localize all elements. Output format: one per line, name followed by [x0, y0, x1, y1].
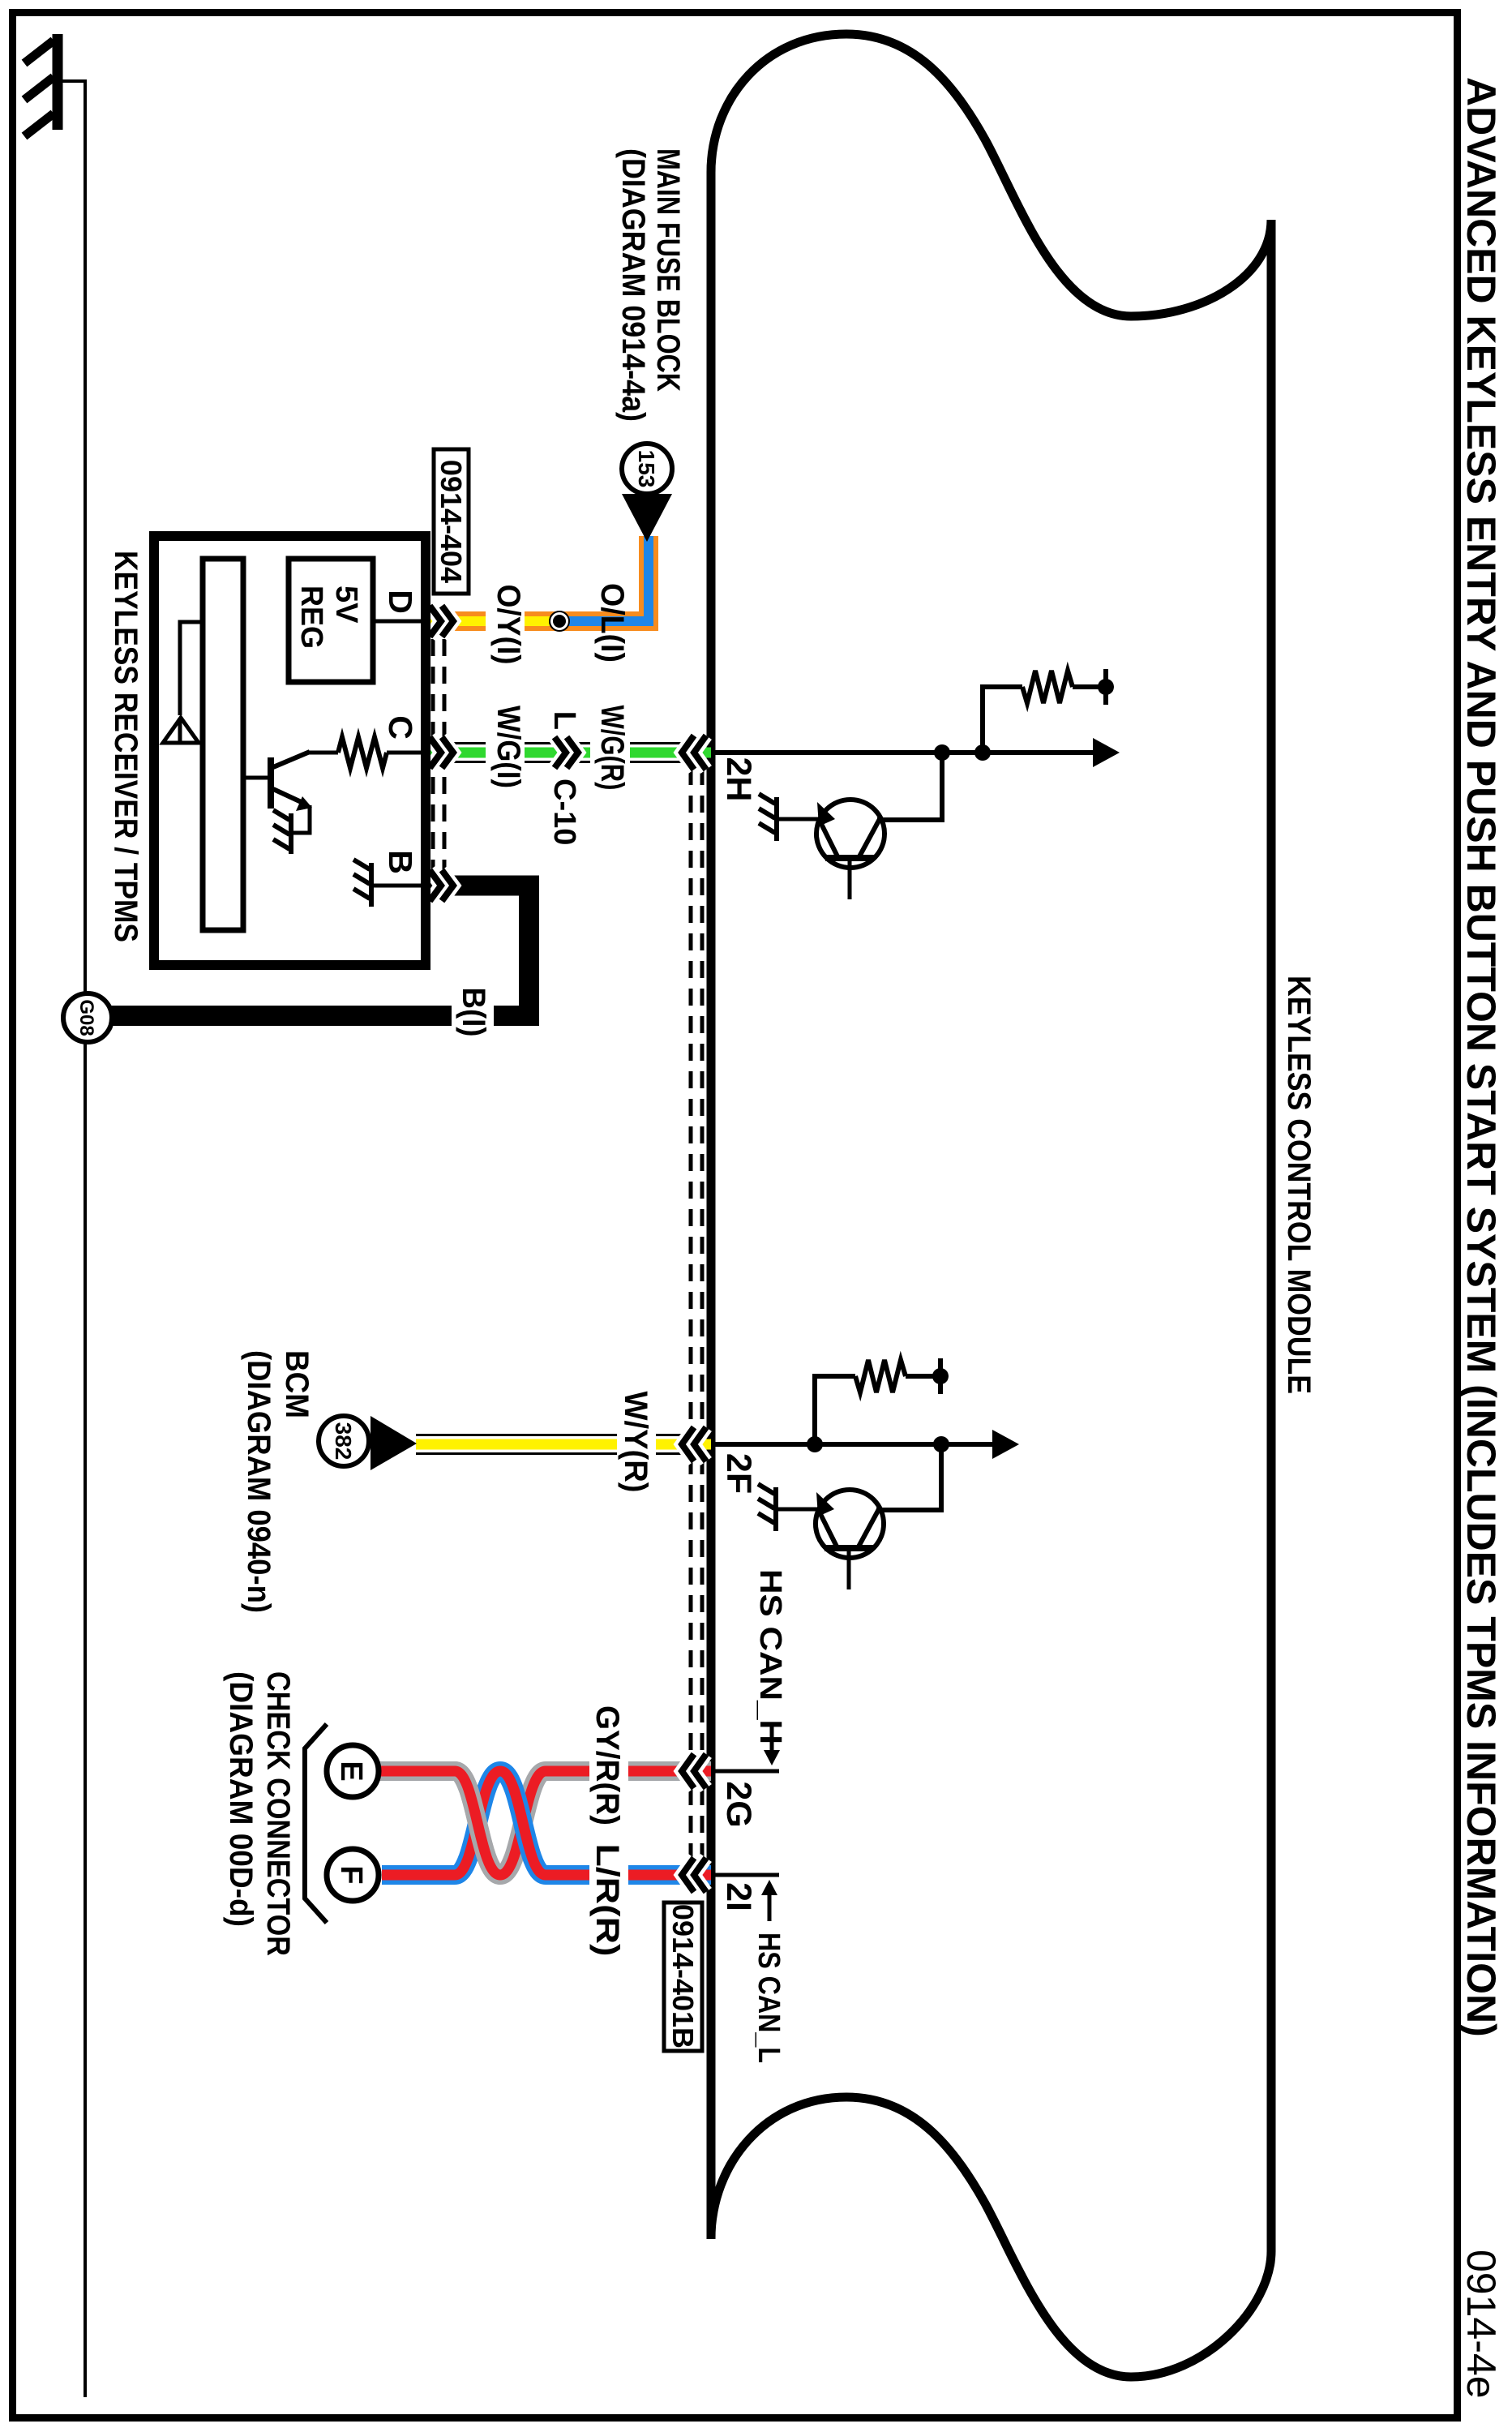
svg-text:HS CAN_L: HS CAN_L [752, 1933, 786, 2063]
svg-text:0914-404: 0914-404 [435, 460, 468, 583]
svg-text:382: 382 [331, 1422, 356, 1461]
svg-text:BCM: BCM [279, 1350, 315, 1418]
wire emitter hook to ground [293, 805, 310, 833]
svg-text:153: 153 [634, 450, 659, 488]
wire emitter to ground 2H [778, 817, 819, 821]
ground (2H transistor) [759, 794, 777, 841]
svg-text:2H: 2H [719, 757, 758, 802]
ground (pin B) [353, 860, 371, 907]
svg-text:D: D [382, 590, 419, 614]
connector circle E [327, 1745, 379, 1797]
svg-text:REG: REG [294, 586, 328, 649]
connector dashed pair at receiver [433, 639, 444, 872]
svg-text:F: F [334, 1865, 368, 1884]
connector chevrons pin 2F [694, 1427, 706, 1461]
junction dot O/Y O/L [550, 611, 569, 631]
svg-text:2G: 2G [719, 1781, 758, 1827]
RF receiver bar [203, 559, 243, 930]
wire O/L(I) junction to main fuse block (orange/blue) [557, 536, 649, 621]
svg-text:0914-4e: 0914-4e [1458, 2250, 1504, 2399]
transistor Q (2H driver) [816, 800, 884, 868]
svg-text:B(I): B(I) [456, 988, 491, 1037]
wire ground bus [84, 81, 87, 2397]
svg-text:5V: 5V [329, 586, 363, 624]
module KEYLESS CONTROL MODULE outline [711, 34, 1271, 2377]
wire branch to transistor 2F [876, 1444, 941, 1510]
wire resistor to transistor collector [309, 751, 338, 755]
connector chevrons pin D [430, 606, 441, 637]
svg-text:0914-401B: 0914-401B [666, 1904, 700, 2048]
wire resistor to rail 2F [906, 1374, 940, 1379]
connector chevrons pin 2G [694, 1754, 706, 1788]
svg-text:(DIAGRAM 0940-n): (DIAGRAM 0940-n) [241, 1350, 276, 1613]
antenna symbol [180, 622, 204, 715]
power feed 153 arrow [622, 494, 672, 542]
connector chevrons pin 2I [694, 1858, 706, 1892]
svg-text:2F: 2F [719, 1453, 758, 1494]
wire pin B to ground [372, 884, 421, 888]
svg-text:O/Y(I): O/Y(I) [490, 585, 526, 665]
wire branch to resistor 2H [983, 687, 1022, 753]
node 2H junction 2 [974, 744, 991, 761]
transistor Q (2F driver) [816, 1490, 884, 1558]
connector dashed pair along module edge [691, 768, 702, 1857]
svg-text:HS CAN_H: HS CAN_H [753, 1569, 787, 1744]
connector box 0914-401B [664, 1903, 702, 2051]
wire GY/R(R) check connector E to pin 2G (gray/red, twisted) [379, 1771, 711, 1875]
node 2F junction 2 [933, 1436, 949, 1452]
wire pin D to 5V REG [373, 620, 421, 624]
ground body G symbol (page corner) [24, 34, 87, 136]
svg-text:MAIN FUSE BLOCK: MAIN FUSE BLOCK [650, 148, 686, 392]
svg-text:KEYLESS CONTROL MODULE: KEYLESS CONTROL MODULE [1281, 976, 1317, 1394]
svg-text:L: L [547, 711, 581, 730]
connector box 0914-404 [434, 449, 469, 594]
rail tick and node 2H [1103, 669, 1108, 705]
ground G08 circle [63, 993, 112, 1042]
box KEYLESS RECEIVER / TPMS [154, 536, 426, 965]
power feed 382 arrow [371, 1416, 417, 1470]
wire emitter to ground 2F [777, 1508, 818, 1512]
wire 2G stub [713, 1770, 779, 1774]
wire 2F line [713, 1442, 993, 1447]
label HS CAN_L with arrow [761, 1880, 777, 1895]
svg-text:(DIAGRAM 00D-d): (DIAGRAM 00D-d) [223, 1671, 259, 1927]
transistor Q (receiver) [242, 752, 310, 809]
svg-text:W/G(R): W/G(R) [594, 706, 630, 791]
resistor (receiver input) [338, 737, 387, 768]
connector circle F [327, 1849, 379, 1901]
wire B(I) pin B to ground G08 (thick black) [110, 886, 529, 1016]
node 2F junction 1 [807, 1436, 823, 1452]
wire W/Y(R) BCM to pin 2F (white/yellow) [416, 1435, 711, 1454]
power feed 382 circle [319, 1416, 369, 1466]
wire pin C to resistor [387, 751, 421, 755]
svg-text:(DIAGRAM 0914-4a): (DIAGRAM 0914-4a) [615, 148, 651, 422]
box 5V REG [289, 559, 373, 682]
svg-text:C-10: C-10 [547, 779, 581, 845]
connector chevrons pin B [430, 870, 441, 901]
connector chevrons pin C [430, 737, 441, 768]
svg-text:2I: 2I [719, 1882, 758, 1911]
resistor (2H pull-up) [1022, 671, 1073, 703]
wire branch to resistor 2F [815, 1376, 855, 1444]
svg-text:GY/R(R): GY/R(R) [589, 1705, 625, 1825]
wire W/G(I)/W/G(R) pin C to pin 2H (white/green) [426, 744, 711, 762]
node 2H junction 1 [934, 744, 950, 761]
resistor (2F pull-up) [855, 1360, 906, 1392]
wire O/Y(I) pin D to junction (orange/yellow) [426, 611, 562, 631]
ground (2F transistor) [758, 1484, 776, 1531]
wire 2H line [713, 750, 1094, 755]
wire branch to transistor 2H [877, 753, 942, 820]
brace check connector [305, 1724, 327, 1923]
svg-text:CHECK CONNECTOR: CHECK CONNECTOR [260, 1671, 296, 1956]
svg-text:ADVANCED KEYLESS ENTRY AND PUS: ADVANCED KEYLESS ENTRY AND PUSH BUTTON S… [1458, 77, 1504, 2037]
svg-text:KEYLESS RECEIVER / TPMS: KEYLESS RECEIVER / TPMS [108, 551, 143, 942]
ground (receiver transistor) [273, 810, 291, 854]
power feed 153 circle [622, 444, 672, 494]
connector chevrons pin 2H [694, 736, 706, 770]
arrow signal out 2H [1093, 738, 1120, 767]
svg-text:C: C [382, 715, 419, 740]
svg-text:W/Y(R): W/Y(R) [618, 1392, 653, 1493]
connector C-10 chevrons on W/G wire [555, 737, 566, 768]
svg-text:L/R(R): L/R(R) [589, 1844, 625, 1957]
svg-text:G08: G08 [75, 999, 97, 1036]
svg-text:W/G(I): W/G(I) [490, 706, 526, 788]
svg-text:E: E [334, 1761, 368, 1781]
rail tick and node 2F [938, 1358, 943, 1394]
svg-text:B: B [382, 850, 419, 874]
wire resistor to rail 2H [1073, 684, 1106, 689]
svg-text:O/L(I): O/L(I) [594, 583, 630, 663]
wire 2I stub [713, 1873, 779, 1877]
wire L/R(R) check connector F to pin 2I (blue/red, twisted) [382, 1771, 711, 1875]
arrow signal out 2F [992, 1430, 1019, 1459]
